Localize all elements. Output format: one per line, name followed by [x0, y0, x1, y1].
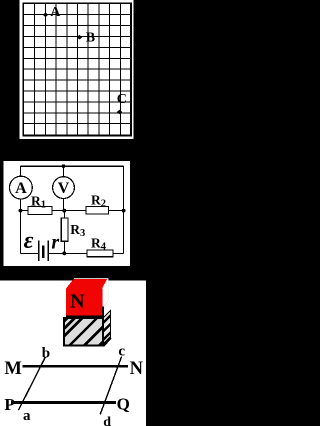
magnet top face back edge highlight	[74, 277, 108, 279]
svg-text:ε: ε	[24, 228, 34, 254]
wire: right vertical	[123, 166, 125, 253]
svg-text:Q: Q	[117, 394, 130, 413]
rod cd (right slanted line)	[100, 357, 121, 415]
magnet top face	[66, 278, 108, 288]
magnet hatched side face	[96, 304, 122, 356]
magnet pole divider bar	[66, 315, 103, 318]
magnet top-side edge highlight	[103, 278, 109, 288]
svg-text:A: A	[15, 180, 27, 197]
svg-text:a: a	[23, 408, 31, 424]
svg-text:V: V	[58, 180, 70, 197]
magnet front face N pole	[66, 289, 103, 316]
point marker C	[117, 110, 123, 115]
wire: stub ammeter bottom to node	[20, 199, 22, 211]
svg-text:N: N	[70, 291, 85, 313]
svg-text:c: c	[118, 344, 125, 360]
grid vertical lines	[35, 4, 121, 135]
wire: bottom right segment from battery	[48, 252, 123, 254]
node dot top of voltmeter	[62, 164, 66, 168]
wire: bottom left segment to battery	[21, 252, 39, 254]
wire: top horizontal	[21, 165, 124, 167]
node dot below voltmeter	[62, 209, 66, 213]
voltmeter V1 circle	[53, 177, 75, 199]
wire: stub from top wire down to ammeter	[20, 166, 22, 176]
svg-text:A: A	[50, 5, 61, 20]
svg-text:b: b	[42, 346, 50, 362]
battery cell long plate right	[47, 241, 49, 262]
wire: stub top wire to voltmeter	[63, 166, 65, 177]
resistor R4 box	[87, 250, 113, 257]
panel 1 white background	[20, 0, 134, 139]
panel 2 white background	[4, 161, 130, 266]
panel 3 white background	[0, 281, 146, 426]
svg-text:C: C	[117, 92, 127, 107]
grid outer border	[23, 3, 131, 135]
node dot left junction	[19, 209, 23, 213]
wire: left vertical	[20, 211, 22, 254]
rod ab (left slanted line)	[18, 357, 45, 410]
point marker B	[77, 35, 83, 40]
resistor R1 box	[28, 207, 52, 215]
battery cell long plate left	[38, 241, 40, 262]
wire: middle vertical (R3 branch)	[63, 211, 65, 254]
resistor R3 box (vertical)	[61, 218, 68, 241]
svg-text:P: P	[4, 395, 14, 414]
node dot bottom middle	[62, 252, 66, 256]
rail MN (top thick line)	[23, 365, 129, 368]
wire: stub voltmeter bottom to middle wire	[63, 198, 65, 210]
ammeter A1 circle	[10, 176, 33, 199]
svg-text:d: d	[103, 415, 111, 426]
resistor R2 box	[86, 207, 109, 214]
magnet hatched front face	[50, 284, 124, 380]
battery short thick plate	[42, 246, 45, 259]
svg-text:r: r	[51, 231, 59, 253]
svg-text:B: B	[86, 31, 95, 46]
grid horizontal lines	[24, 15, 130, 124]
magnet side face (white)	[103, 278, 109, 310]
node dot right wire	[122, 209, 126, 213]
svg-text:M: M	[4, 359, 21, 379]
rail PQ (bottom thick line)	[11, 401, 116, 404]
svg-text:N: N	[130, 359, 144, 379]
point marker A	[43, 13, 49, 18]
wire: middle horizontal (R1-R2 branch)	[21, 210, 124, 212]
